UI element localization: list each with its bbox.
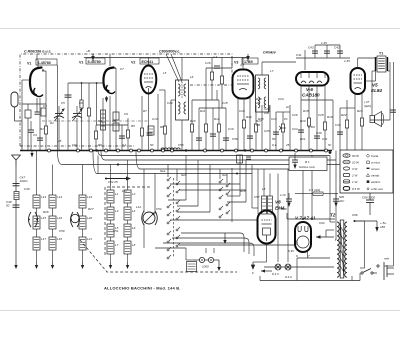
tube V6 EM4 magic eye (rounded envelope) bbox=[258, 211, 276, 244]
svg-text:P1: P1 bbox=[284, 117, 288, 121]
trimmer boxes near V2 bbox=[113, 112, 119, 131]
resistor R31 (hatched, above magic eye) bbox=[262, 196, 267, 214]
svg-text:L16: L16 bbox=[57, 216, 62, 220]
svg-text:a filo avv.: a filo avv. bbox=[371, 187, 384, 191]
svg-text:R26: R26 bbox=[43, 210, 49, 214]
svg-text:25: 25 bbox=[57, 139, 62, 143]
junction dots on grid wire bbox=[81, 82, 83, 84]
svg-text:1.45: 1.45 bbox=[321, 41, 327, 45]
capacitor C19 bbox=[223, 138, 229, 140]
wire rails below bus bbox=[58, 151, 394, 174]
mains switch S2 bbox=[361, 265, 379, 274]
ground arrow osc col2 bbox=[126, 262, 129, 269]
svg-text:50: 50 bbox=[272, 137, 276, 141]
legend row 3 bbox=[343, 167, 380, 171]
wire: antenna lead-in bbox=[15, 166, 17, 262]
lamps feed wire bbox=[264, 266, 334, 268]
svg-text:2M: 2M bbox=[255, 101, 261, 105]
resistor R23 bbox=[360, 118, 363, 126]
svg-text:10 W: 10 W bbox=[352, 161, 360, 165]
svg-text:C30: C30 bbox=[316, 131, 322, 135]
svg-text:C16: C16 bbox=[205, 61, 211, 65]
wave switch contact column 2 bbox=[176, 181, 180, 247]
svg-text:V1: V1 bbox=[79, 61, 83, 65]
IF transformer can 2 bbox=[256, 75, 269, 112]
svg-text:L1: L1 bbox=[115, 192, 119, 196]
loudspeaker (cone) bbox=[370, 112, 384, 127]
svg-text:50: 50 bbox=[6, 204, 10, 208]
capacitor C17 bbox=[196, 138, 202, 140]
ground arrow below bus bbox=[30, 151, 33, 158]
capacitor C48 bbox=[6, 200, 20, 208]
label C800/800 with pointer lines bbox=[159, 50, 182, 83]
svg-text:L19: L19 bbox=[87, 195, 92, 199]
svg-text:L3: L3 bbox=[115, 209, 119, 213]
svg-text:B 1: B 1 bbox=[305, 160, 310, 164]
svg-text:R6: R6 bbox=[98, 143, 102, 147]
tuning gang section 2 (trimmer with arrow) bbox=[72, 106, 83, 150]
tuning gang section 1 (trimmer with arrow) bbox=[54, 106, 65, 150]
svg-text:F 1 (3pt): F 1 (3pt) bbox=[309, 188, 320, 192]
tube V1b (IF amp, bold envelope arc) bbox=[103, 58, 115, 94]
svg-text:2kV: 2kV bbox=[338, 199, 345, 203]
ground arrow below V1b cathode bbox=[105, 96, 108, 103]
svg-text:L2: L2 bbox=[132, 192, 136, 196]
antenna symbol bbox=[12, 155, 21, 166]
resistor R7 bbox=[140, 128, 143, 136]
svg-text:V 7 AZ 41: V 7 AZ 41 bbox=[295, 216, 316, 221]
pilot lamp 2 (scale lamp with X) bbox=[285, 264, 291, 270]
ground arrow (lamps) bbox=[217, 260, 220, 271]
svg-text:ALLOCCHIO BACCHINI - Mod. 144: ALLOCCHIO BACCHINI - Mod. 144 B. bbox=[104, 286, 181, 291]
svg-text:S1c: S1c bbox=[222, 173, 228, 177]
resistor R2 bbox=[80, 100, 83, 108]
wire: chassis ground bus bbox=[20, 150, 332, 152]
capacitor C9 bbox=[119, 136, 125, 138]
resistor R14 bbox=[242, 120, 245, 128]
cluster under V1a: capacitor C2 bbox=[37, 98, 43, 150]
resistor R5 bbox=[126, 130, 129, 138]
page bottom edge line bbox=[0, 310, 400, 312]
svg-text:S1b: S1b bbox=[181, 173, 187, 177]
capacitor C5b bbox=[65, 95, 72, 97]
band switch wafer B (arcs with shaft circle) bbox=[70, 212, 80, 227]
svg-text:C14: C14 bbox=[167, 101, 173, 105]
svg-text:0.5 W: 0.5 W bbox=[352, 187, 361, 191]
scattered value labels (top section) bbox=[33, 49, 363, 137]
svg-text:R22: R22 bbox=[341, 113, 347, 117]
svg-text:100: 100 bbox=[264, 111, 269, 115]
legend row 1 bbox=[343, 154, 379, 158]
svg-text:L4: L4 bbox=[132, 209, 136, 213]
svg-text:C42: C42 bbox=[334, 46, 340, 50]
svg-text:R21: R21 bbox=[300, 137, 306, 141]
tube V3 1785 (rounded-rect envelope) bbox=[233, 70, 254, 99]
under-bus parts (AF coupling) bbox=[232, 155, 251, 222]
svg-text:17B5: 17B5 bbox=[244, 60, 253, 64]
wire: nested rounded runs from switch to right bbox=[155, 233, 254, 260]
resistor R3 bbox=[87, 108, 90, 116]
legend row 2 bbox=[343, 160, 380, 164]
svg-text:C6a: C6a bbox=[72, 143, 78, 147]
capacitor C42 bbox=[334, 46, 343, 54]
tube V2 ECH41 (oval envelope) bbox=[141, 66, 157, 96]
ground arrow (antenna branch) bbox=[14, 262, 17, 269]
padder coil near V2 bbox=[101, 110, 106, 130]
resistor R11 bbox=[204, 124, 207, 132]
legend row 6 bbox=[343, 187, 383, 191]
ground arrow bank A c2 bbox=[51, 262, 54, 269]
capacitor C24 bbox=[273, 132, 279, 134]
capacitor C43 bbox=[308, 46, 318, 54]
svg-text:R14: R14 bbox=[246, 115, 252, 119]
secondary right wire bbox=[355, 221, 365, 268]
wire: right edge vertical run bbox=[370, 62, 394, 266]
resistor R22 bbox=[345, 120, 348, 128]
svg-text:25: 25 bbox=[285, 143, 290, 147]
svg-text:C24: C24 bbox=[292, 127, 298, 131]
wave switch contact column 1 bbox=[167, 177, 171, 259]
bus junction terminals bbox=[48, 149, 328, 152]
potentiometer (volume) bbox=[279, 124, 286, 132]
pilot lamp sockets (dial lamps) bbox=[193, 257, 219, 268]
svg-text:R28: R28 bbox=[240, 189, 246, 193]
svg-text:C4mk/v: C4mk/v bbox=[263, 51, 277, 55]
svg-text:C6: C6 bbox=[79, 101, 83, 105]
speaker box (altoparlante) bbox=[289, 157, 327, 171]
svg-text:1,45: 1,45 bbox=[344, 59, 350, 63]
V1a cathode network bbox=[22, 98, 46, 150]
svg-text:C33: C33 bbox=[335, 123, 341, 127]
svg-text:R8: R8 bbox=[160, 125, 164, 129]
capacitor C21 bbox=[247, 136, 253, 138]
ground arrow (mid) bbox=[223, 233, 226, 244]
ground arrow bank B bbox=[81, 262, 84, 269]
cluster under V2 bbox=[142, 90, 176, 150]
chassis coil L9 (on bus) bbox=[161, 148, 171, 150]
svg-text:R1: R1 bbox=[40, 127, 44, 131]
switch contact connection wires bbox=[170, 184, 296, 245]
coil bank B column bbox=[79, 186, 86, 262]
svg-text:0,5M: 0,5M bbox=[308, 125, 315, 129]
variable capacitor (tuning gang, circle with arrow) bbox=[143, 212, 155, 224]
heater feed arrow into V7 bbox=[316, 230, 334, 239]
svg-text:Carta: Carta bbox=[371, 154, 379, 158]
svg-text:bobina mob.: bobina mob. bbox=[299, 165, 316, 169]
shield enclosure (dash-dot box around RF section) bbox=[20, 54, 232, 146]
svg-text:(0µF): (0µF) bbox=[364, 104, 371, 108]
legend row 4 bbox=[343, 173, 380, 177]
svg-text:C7: C7 bbox=[120, 67, 124, 71]
chassis boundary dashed (tuning unit) bbox=[80, 240, 237, 272]
svg-text:C3: C3 bbox=[43, 104, 47, 108]
svg-text:R27: R27 bbox=[88, 207, 94, 211]
svg-text:C18: C18 bbox=[222, 101, 228, 105]
svg-text:L17: L17 bbox=[41, 237, 46, 241]
cluster under V1b: wires and parts bbox=[96, 54, 128, 150]
svg-text:L18: L18 bbox=[57, 237, 62, 241]
svg-text:6,3V: 6,3V bbox=[288, 249, 295, 253]
svg-text:EL84: EL84 bbox=[371, 88, 382, 93]
svg-text:C5: C5 bbox=[61, 101, 65, 105]
svg-text:L12: L12 bbox=[136, 205, 141, 209]
svg-text:+B: +B bbox=[86, 49, 90, 53]
mains plug bbox=[384, 257, 394, 281]
HT rail above V7 bbox=[287, 213, 335, 220]
cluster right of V4 / under V5 bbox=[340, 94, 362, 151]
svg-text:R4: R4 bbox=[98, 119, 102, 123]
resistor R19 bbox=[323, 122, 326, 130]
svg-text:T2: T2 bbox=[330, 213, 336, 218]
band switch wafer D (arcs by tuning cap) bbox=[142, 211, 158, 225]
tube V7 AZ41 rectifier (rounded envelope) bbox=[295, 222, 311, 258]
svg-text:L15: L15 bbox=[41, 216, 46, 220]
svg-text:V5: V5 bbox=[372, 83, 378, 88]
grid-cap ground arrow mid bbox=[246, 54, 249, 61]
svg-text:L11: L11 bbox=[122, 189, 127, 193]
wire: V1a anode to top rail bbox=[22, 54, 46, 121]
svg-text:R18: R18 bbox=[303, 109, 309, 113]
labels osc coils bbox=[115, 192, 136, 247]
svg-text:L13: L13 bbox=[41, 195, 46, 199]
svg-text:100/m: 100/m bbox=[20, 179, 29, 183]
svg-text:C4: C4 bbox=[33, 133, 37, 137]
svg-text:1000: 1000 bbox=[202, 265, 209, 269]
svg-text:C57: C57 bbox=[254, 195, 260, 199]
legend row 5 bbox=[343, 180, 381, 184]
cluster between IF1 and V3 bbox=[182, 68, 232, 150]
resistor R13a bbox=[210, 72, 213, 80]
svg-text:L7: L7 bbox=[270, 69, 274, 73]
svg-text:variab.: variab. bbox=[371, 174, 380, 178]
svg-text:C13: C13 bbox=[152, 117, 158, 121]
svg-text:R30: R30 bbox=[281, 207, 287, 211]
AVC cluster right of V3 bbox=[212, 58, 222, 109]
svg-text:0,3 A: 0,3 A bbox=[285, 275, 292, 279]
tube V5 EL84 (vertical rounded envelope) bbox=[351, 68, 366, 94]
resistor R12 bbox=[217, 124, 220, 132]
svg-text:C8: C8 bbox=[112, 119, 116, 123]
svg-text:0,1: 0,1 bbox=[122, 143, 127, 147]
svg-text:1.4: 1.4 bbox=[213, 55, 218, 59]
svg-text:R19: R19 bbox=[327, 115, 333, 119]
ground arrow osc col1 bbox=[109, 262, 112, 269]
resistor R32 (hatched, above magic eye) bbox=[268, 196, 273, 214]
resistor R-ant (hatched box on antenna lead) bbox=[14, 192, 19, 200]
svg-text:L20: L20 bbox=[87, 216, 92, 220]
svg-text:C41: C41 bbox=[296, 53, 302, 57]
phono arrow F bbox=[252, 269, 272, 275]
wires around V2/IF1 top bbox=[149, 58, 297, 113]
capacitor C45 bbox=[321, 41, 330, 53]
vertical drops from rails to lower sections bbox=[37, 151, 361, 281]
svg-text:C66: C66 bbox=[352, 213, 358, 217]
tube V4 CAB180 (horizontal oval envelope) bbox=[296, 72, 329, 86]
svg-text:rete: rete bbox=[384, 257, 390, 261]
svg-text:ceram.: ceram. bbox=[371, 167, 380, 171]
svg-text:50 W: 50 W bbox=[352, 154, 360, 158]
svg-text:V-6: V-6 bbox=[306, 87, 313, 92]
svg-text:C20: C20 bbox=[239, 109, 245, 113]
svg-text:C26: C26 bbox=[292, 113, 298, 117]
antenna loop coil (top left) bbox=[11, 92, 22, 150]
svg-text:C49: C49 bbox=[24, 187, 30, 191]
capacitor C33 bbox=[337, 132, 343, 134]
svg-text:R10: R10 bbox=[190, 119, 196, 123]
wave switch contact column 3 bbox=[219, 179, 230, 218]
svg-text:C56: C56 bbox=[232, 137, 238, 141]
wire: legend down to plug bbox=[369, 193, 371, 200]
svg-text:C28: C28 bbox=[318, 113, 324, 117]
oscillator section dashed enclosure bbox=[105, 187, 150, 255]
svg-text:V3: V3 bbox=[234, 61, 238, 65]
page top edge line bbox=[0, 28, 400, 30]
svg-text:C25: C25 bbox=[264, 129, 270, 133]
osc coil column 2 bbox=[124, 186, 131, 262]
resistor R8 bbox=[163, 126, 166, 134]
svg-text:50: 50 bbox=[150, 143, 154, 147]
svg-text:0,1: 0,1 bbox=[272, 143, 277, 147]
svg-text:R1: R1 bbox=[50, 121, 54, 125]
B+ output arrow bbox=[354, 220, 387, 232]
legend box (component code table) bbox=[340, 150, 393, 193]
coil bank A column 2 bbox=[49, 186, 56, 262]
junction dot on rail bbox=[117, 163, 119, 165]
svg-text:L6: L6 bbox=[132, 226, 136, 230]
ground arrow bank A c1 bbox=[35, 262, 38, 269]
svg-text:C23: C23 bbox=[271, 117, 277, 121]
svg-text:elettrol.: elettrol. bbox=[371, 180, 381, 184]
power transformer T2 bbox=[337, 220, 347, 278]
svg-text:ECH41: ECH41 bbox=[142, 60, 154, 64]
svg-text:R11: R11 bbox=[200, 109, 206, 113]
resistor R4 bbox=[94, 131, 97, 139]
wire: top rail in shield box bbox=[58, 54, 248, 150]
svg-text:C31: C31 bbox=[322, 137, 328, 141]
top rail above V4/V5 bbox=[296, 45, 377, 81]
svg-text:V1: V1 bbox=[27, 62, 31, 66]
svg-text:C19: C19 bbox=[228, 127, 234, 131]
svg-text:1M: 1M bbox=[256, 123, 261, 127]
tube V1 (RF amp, bold envelope arc) bbox=[30, 60, 46, 97]
scattered value labels (detector band) bbox=[57, 97, 332, 147]
gang link (dash-dot) bbox=[42, 120, 148, 122]
svg-text:R5: R5 bbox=[131, 124, 135, 128]
fuse F1 on B+ line bbox=[295, 188, 338, 195]
svg-text:L8: L8 bbox=[132, 243, 136, 247]
scattered value labels (bottom section) bbox=[24, 169, 358, 253]
capacitor C68 (mains filter) bbox=[362, 196, 375, 203]
svg-text:L21: L21 bbox=[87, 237, 92, 241]
resistor R13b bbox=[220, 76, 223, 84]
svg-text:R12: R12 bbox=[214, 117, 220, 121]
svg-text:5n: 5n bbox=[328, 143, 332, 147]
capacitor C18 bbox=[210, 134, 216, 136]
band switch wafer A (arcs) bbox=[28, 212, 38, 227]
small IF padder box C11 bbox=[148, 126, 154, 135]
ballast resistor (lamp line) bbox=[187, 262, 197, 272]
svg-text:C23: C23 bbox=[278, 97, 284, 101]
grid-cap ground arrow left bbox=[91, 54, 94, 61]
svg-text:a mica: a mica bbox=[371, 161, 380, 165]
svg-text:C43: C43 bbox=[308, 46, 314, 50]
cluster under V3 bbox=[238, 98, 262, 150]
svg-text:C800/800v.c.: C800/800v.c. bbox=[159, 50, 180, 54]
wires T1 to speaker bbox=[372, 71, 376, 116]
dial drive arrow bbox=[105, 177, 131, 185]
capacitor on right edge bbox=[390, 110, 396, 112]
svg-text:R23: R23 bbox=[357, 109, 363, 113]
coil bank A column 1 bbox=[33, 192, 40, 262]
capacitor C28 bbox=[298, 130, 304, 132]
svg-text:C55: C55 bbox=[178, 143, 184, 147]
output transformer T1 bbox=[376, 56, 388, 72]
svg-text:5-45780: 5-45780 bbox=[88, 60, 101, 64]
svg-text:F: F bbox=[252, 271, 254, 275]
svg-text:C64: C64 bbox=[319, 221, 325, 225]
svg-text:C68 5000: C68 5000 bbox=[362, 196, 375, 200]
svg-text:186: 186 bbox=[380, 225, 385, 229]
svg-text:C50: C50 bbox=[59, 229, 65, 233]
filled junction dots on bus bbox=[95, 149, 331, 154]
svg-text:6,3 V: 6,3 V bbox=[272, 272, 280, 276]
svg-text:L14: L14 bbox=[57, 195, 62, 199]
svg-text:L5: L5 bbox=[163, 71, 167, 75]
switch shaft (dashed) bbox=[173, 178, 175, 258]
svg-text:2n: 2n bbox=[285, 105, 290, 109]
osc coil column 1 bbox=[107, 186, 114, 262]
svg-text:L6: L6 bbox=[190, 75, 194, 79]
resistor R15 bbox=[254, 124, 257, 132]
IF transformer can 1 bbox=[176, 80, 189, 120]
capacitor C15 bbox=[214, 66, 220, 68]
capacitor C47 (antenna series) bbox=[13, 176, 29, 186]
svg-text:CAB180: CAB180 bbox=[302, 93, 320, 98]
chassis coil L10 (on bus) bbox=[171, 148, 181, 150]
resistor R10 bbox=[190, 124, 193, 132]
capacitor C13 bbox=[147, 133, 153, 135]
resistor R18 bbox=[307, 118, 310, 126]
cluster under V1a: resistor R1 bbox=[40, 108, 48, 150]
label 5E4780 (boxed) bbox=[86, 58, 105, 64]
svg-text:R20: R20 bbox=[300, 119, 306, 123]
svg-text:C51: C51 bbox=[113, 229, 119, 233]
label 6-45780 (boxed) bbox=[36, 59, 57, 65]
svg-text:C52: C52 bbox=[156, 207, 162, 211]
capacitor C59 with ground arrow bbox=[292, 153, 298, 169]
svg-text:C9: C9 bbox=[124, 112, 128, 116]
cluster volume control under IF2 bbox=[270, 105, 290, 150]
svg-text:C.R06/186 o.u.c.: C.R06/186 o.u.c. bbox=[24, 50, 52, 54]
svg-text:R7: R7 bbox=[143, 109, 147, 113]
svg-text:4,7: 4,7 bbox=[240, 63, 245, 67]
cluster under V4 bbox=[301, 85, 333, 150]
capacitor C29 bbox=[314, 136, 320, 138]
svg-text:S1a: S1a bbox=[160, 169, 166, 173]
svg-text:V2: V2 bbox=[131, 61, 135, 65]
svg-text:6-45780: 6-45780 bbox=[38, 61, 51, 65]
left cluster caps under V1a bbox=[28, 121, 34, 150]
svg-text:T1: T1 bbox=[379, 52, 383, 56]
svg-text:L7: L7 bbox=[115, 243, 119, 247]
svg-text:C52 25: C52 25 bbox=[108, 180, 118, 184]
output coupling caps row bbox=[280, 193, 292, 207]
pilot lamp 1 (scale lamp with X) bbox=[275, 264, 281, 270]
svg-text:1 nF: 1 nF bbox=[280, 193, 286, 197]
svg-text:L8: L8 bbox=[262, 187, 266, 191]
